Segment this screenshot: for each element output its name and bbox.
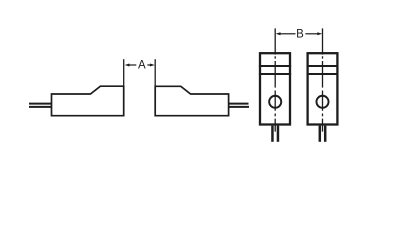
svg-text:B: B (296, 29, 304, 41)
svg-text:A: A (138, 59, 146, 71)
